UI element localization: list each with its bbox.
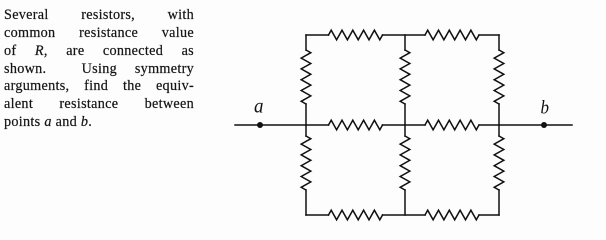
wire: mid rail right stub [479, 124, 499, 126]
wire: top rail right stub [479, 34, 499, 36]
wire: mid rail center segment [383, 124, 426, 126]
resistor right column upper (R) [494, 50, 504, 104]
wire: center column bottom stub [404, 190, 406, 215]
wire: left column top stub [305, 35, 307, 50]
wire: bottom rail right stub [479, 214, 499, 216]
svg-text:a: a [254, 94, 264, 118]
resistor left column upper (R) [301, 50, 311, 104]
resistor top-left (R) [329, 30, 383, 40]
node b (terminal dot) [541, 122, 547, 128]
resistor mid-left (R) [329, 120, 383, 130]
resistor top-right (R) [425, 30, 479, 40]
wire: left column middle segment [305, 104, 307, 136]
resistor bottom-left (R) [329, 210, 383, 220]
wire: bottom rail left stub [306, 214, 329, 216]
resistor left column lower (R) [301, 136, 311, 190]
wire: left column bottom stub [305, 190, 307, 215]
resistor center column lower (R) [400, 136, 410, 190]
wire: right column top stub [498, 35, 500, 50]
resistor mid-right (R) [425, 120, 479, 130]
wire: center column top stub [404, 35, 406, 50]
wire: center column middle segment [404, 104, 406, 136]
wire: top rail center segment [383, 34, 426, 36]
wire: right rail to terminal b lead [499, 124, 572, 126]
resistor center column upper (R) [400, 50, 410, 104]
svg-text:b: b [541, 99, 550, 119]
resistor bottom-right (R) [425, 210, 479, 220]
wire: bottom rail center segment [383, 214, 426, 216]
wire: mid rail left stub [306, 124, 329, 126]
wire: right column middle segment [498, 104, 500, 136]
wire: terminal a lead to left rail [235, 124, 306, 126]
problem statement text [4, 7, 194, 132]
node a (terminal dot) [257, 122, 263, 128]
wire: top rail left stub [306, 34, 329, 36]
resistor right column lower (R) [494, 136, 504, 190]
wire: right column bottom stub [498, 190, 500, 215]
